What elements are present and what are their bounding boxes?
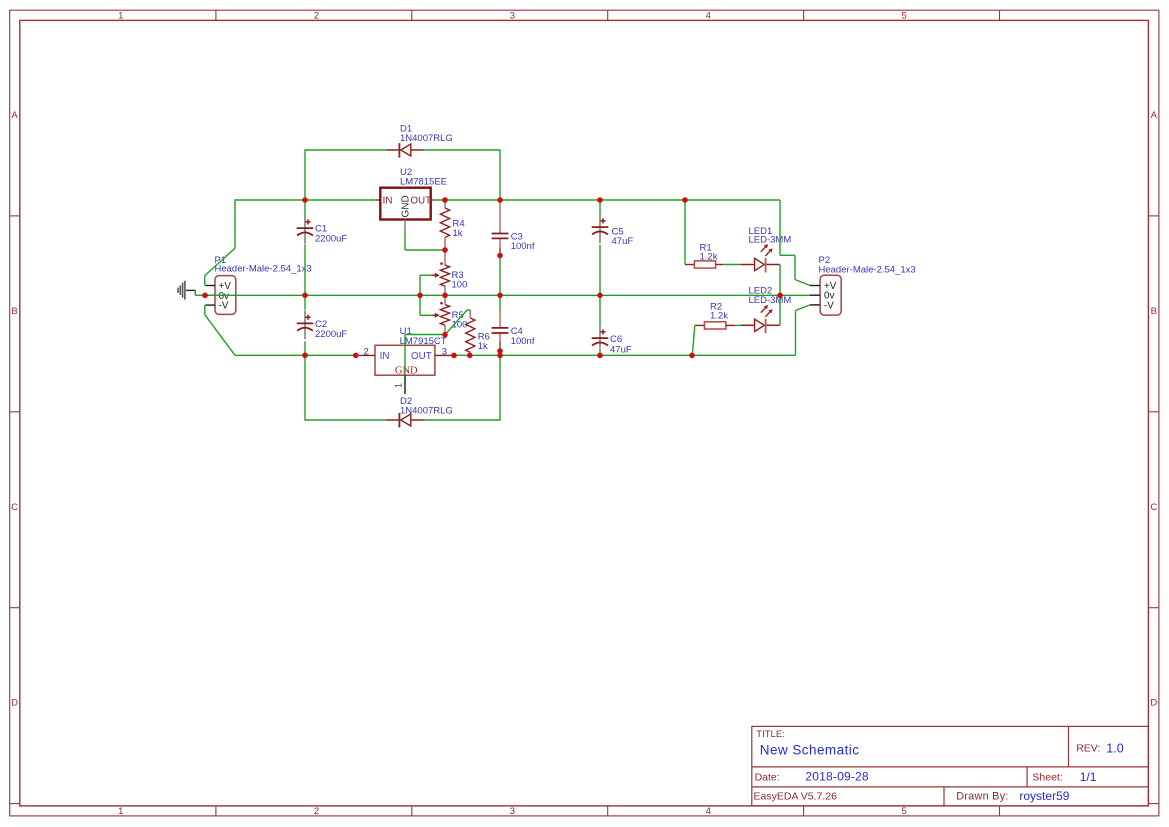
- junction node (500,295.3): [497, 293, 503, 299]
- title block: [752, 726, 1149, 806]
- svg-text:OUT: OUT: [410, 195, 431, 206]
- wire R1 branch vertical: [684, 199, 686, 264]
- capacitor C3: [492, 202, 509, 255]
- wire U2 gnd horizontal: [405, 249, 445, 251]
- svg-text:100nf: 100nf: [511, 241, 535, 252]
- junction node (685,200): [682, 197, 688, 203]
- wire C4 bottom stub: [499, 351, 501, 356]
- ground symbol: [178, 281, 195, 300]
- resistor R1: [685, 261, 723, 268]
- wire P2 +V diagonal: [795, 280, 810, 286]
- capacitor C1: [297, 215, 314, 244]
- svg-text:100: 100: [452, 279, 468, 290]
- wire R5-R6 diagonal: [445, 310, 467, 335]
- junction node (600,355.4): [597, 353, 603, 359]
- svg-text:2: 2: [364, 346, 369, 357]
- label P2: [819, 255, 916, 275]
- junction node (500,200): [497, 197, 503, 203]
- svg-text:New Schematic: New Schematic: [760, 743, 860, 758]
- wire left vertical upper: [304, 149, 306, 215]
- trimmer R3: [431, 251, 450, 294]
- junction node (469.8,355.4): [467, 353, 473, 359]
- junction node (305,200): [302, 197, 308, 203]
- wire +V corner vertical: [779, 200, 781, 255]
- LED LED2: [740, 305, 780, 333]
- svg-text:LED-3MM: LED-3MM: [749, 295, 792, 306]
- junction node (500,255.5): [497, 253, 503, 259]
- svg-text:1/1: 1/1: [1080, 770, 1097, 784]
- wire top rail left: [235, 199, 376, 201]
- svg-text:1N4007RLG: 1N4007RLG: [400, 406, 453, 417]
- svg-text:3: 3: [510, 11, 515, 22]
- header P1: [206, 276, 236, 315]
- svg-text:A: A: [1151, 110, 1158, 121]
- junction node (445,250): [442, 247, 448, 253]
- wire gnd jog horizontal: [195, 294, 205, 296]
- svg-text:1N4007RLG: 1N4007RLG: [400, 133, 453, 144]
- junction node (454,355.4): [451, 353, 457, 359]
- label U2: [400, 167, 447, 188]
- svg-text:5: 5: [902, 806, 907, 817]
- regulator U2 LM7815EE: [376, 188, 434, 230]
- wire P1 +V vertical: [234, 199, 236, 248]
- wire P2 +V vertical: [794, 255, 796, 279]
- svg-text:-V: -V: [219, 301, 229, 312]
- capacitor C4: [492, 314, 509, 351]
- capacitor C2: [297, 310, 314, 339]
- svg-text:IN: IN: [380, 351, 390, 362]
- label R6: [478, 332, 490, 353]
- junction node (445,295.3): [442, 293, 448, 299]
- wire U2 gnd vertical: [404, 230, 406, 250]
- junction node (500,351): [497, 348, 503, 354]
- wire C3-C4 vertical: [499, 256, 501, 314]
- svg-text:5: 5: [902, 11, 907, 22]
- svg-text:2: 2: [314, 806, 319, 817]
- label R1: [700, 243, 718, 263]
- svg-text:IN: IN: [383, 195, 393, 206]
- label R4: [453, 218, 465, 239]
- svg-text:47uF: 47uF: [610, 345, 632, 356]
- svg-text:LM7815EE: LM7815EE: [400, 177, 447, 188]
- label C5: [612, 226, 634, 247]
- wire gnd jog vertical: [194, 290, 196, 296]
- label D1: [400, 124, 453, 145]
- wire U1 gnd over pin: [404, 375, 406, 394]
- junction node (600,295.3): [597, 293, 603, 299]
- svg-text:2: 2: [314, 11, 319, 22]
- svg-text:1.2k: 1.2k: [710, 311, 728, 322]
- wire R3 wiper stub: [420, 274, 432, 276]
- wire P1 +V diagonal: [205, 248, 235, 275]
- svg-text:REV:: REV:: [1076, 742, 1100, 754]
- svg-text:C: C: [1150, 502, 1157, 513]
- resistor R2: [695, 322, 735, 329]
- junction node (445,200): [442, 197, 448, 203]
- svg-text:Sheet:: Sheet:: [1032, 772, 1062, 784]
- label C2: [315, 319, 347, 340]
- svg-text:B: B: [11, 306, 17, 317]
- svg-text:LED-3MM: LED-3MM: [749, 234, 792, 245]
- svg-text:C6: C6: [610, 334, 622, 345]
- svg-text:1.0: 1.0: [1106, 741, 1123, 755]
- svg-text:1: 1: [118, 806, 123, 817]
- wire R5 wiper stub: [420, 314, 433, 316]
- wire D2 right: [425, 419, 500, 421]
- junction node (420,295.3): [417, 293, 423, 299]
- svg-text:EasyEDA V5.7.26: EasyEDA V5.7.26: [754, 791, 838, 803]
- junction node (205,295.3): [202, 293, 208, 299]
- wire P2 -V diagonal: [796, 305, 811, 311]
- svg-text:2018-09-28: 2018-09-28: [805, 770, 869, 784]
- svg-text:Drawn By:: Drawn By:: [956, 791, 1009, 803]
- diode D2: [386, 413, 425, 428]
- wire bottom rail right: [454, 354, 796, 356]
- junction node (305,295.3): [302, 293, 308, 299]
- svg-text:GND: GND: [395, 365, 418, 376]
- header P2: [810, 275, 841, 315]
- label D2: [400, 396, 453, 417]
- svg-text:B: B: [1151, 306, 1157, 317]
- wire R1-LED1: [723, 264, 740, 266]
- label C3: [511, 231, 535, 252]
- wire R2-LED2: [735, 324, 741, 326]
- LED LED1: [740, 244, 780, 272]
- svg-text:1: 1: [394, 383, 404, 388]
- wire 0v rail: [208, 294, 810, 296]
- wire +V corner horizontal: [780, 254, 795, 256]
- svg-text:1k: 1k: [478, 341, 488, 352]
- junction node (445,334.7): [442, 332, 448, 338]
- wire P1 -V drop: [204, 305, 206, 315]
- label P1: [215, 255, 312, 275]
- junction node (355.7,355.4): [353, 353, 359, 359]
- wire C4-D2 vertical: [499, 355, 501, 420]
- wire R2 drop: [692, 325, 695, 355]
- wire top rail right: [434, 199, 781, 201]
- label U1: [400, 326, 447, 347]
- label LED2: [749, 285, 792, 306]
- svg-text:A: A: [11, 110, 18, 121]
- label R5: [452, 310, 468, 331]
- junction node (780,295.3): [777, 293, 783, 299]
- wire P1 +V drop: [204, 276, 206, 286]
- svg-text:3: 3: [442, 346, 447, 357]
- svg-text:C: C: [11, 502, 18, 513]
- label C6: [610, 334, 632, 356]
- svg-text:D: D: [11, 698, 18, 709]
- label LED1: [749, 226, 792, 245]
- svg-text:4: 4: [706, 11, 711, 22]
- resistor R6: [466, 310, 475, 355]
- label C4: [511, 326, 535, 347]
- label R2: [710, 301, 728, 321]
- label R3: [452, 270, 468, 291]
- junction node (305,355.3): [302, 353, 308, 359]
- capacitor C5: [592, 214, 609, 243]
- svg-text:D: D: [1150, 698, 1157, 709]
- resistor R4: [440, 201, 449, 249]
- wire D1 right: [425, 149, 500, 151]
- trimmer R5: [432, 296, 450, 334]
- capacitor C6: [592, 325, 609, 354]
- svg-text:Header-Male-2.54_1x3: Header-Male-2.54_1x3: [819, 264, 916, 275]
- svg-text:100nf: 100nf: [511, 336, 535, 347]
- wire P1 -V diagonal: [205, 315, 235, 356]
- svg-text:1k: 1k: [453, 228, 463, 239]
- wire bottom rail left: [235, 354, 356, 356]
- svg-text:47uF: 47uF: [612, 236, 634, 247]
- wire left vertical lower: [304, 341, 306, 420]
- wire D1 left: [305, 149, 386, 151]
- junction node (692,355.4): [689, 353, 695, 359]
- wire R6 top stub: [467, 309, 470, 311]
- wire LED cathode vertical: [779, 265, 781, 326]
- wire wiper vertical: [419, 275, 421, 315]
- wire C5 top stub: [599, 199, 601, 215]
- wire D1-C3 vertical: [499, 149, 501, 202]
- svg-text:OUT: OUT: [411, 351, 432, 362]
- wire U1 gnd vertical: [404, 335, 406, 376]
- wire C5-C6 vertical: [599, 245, 601, 326]
- wire U1 gnd horizontal: [405, 334, 445, 336]
- wire left vertical mid: [304, 245, 306, 310]
- svg-text:3: 3: [510, 806, 515, 817]
- svg-text:TITLE:: TITLE:: [756, 729, 785, 740]
- wire P2 -V vertical: [795, 311, 797, 356]
- svg-text:GND: GND: [401, 195, 412, 217]
- svg-text:2200uF: 2200uF: [315, 329, 347, 340]
- svg-text:4: 4: [706, 806, 711, 817]
- svg-text:1: 1: [118, 11, 123, 22]
- wire D2 left: [305, 419, 386, 421]
- svg-text:Date:: Date:: [755, 772, 780, 784]
- regulator U1 LM7915CT: [358, 345, 453, 394]
- diode D1: [386, 143, 425, 158]
- junction node (600,200): [597, 197, 603, 203]
- svg-text:royster59: royster59: [1019, 789, 1069, 803]
- junction node (500,355.4): [497, 353, 503, 359]
- svg-text:Header-Male-2.54_1x3: Header-Male-2.54_1x3: [215, 263, 312, 274]
- label C1: [315, 224, 347, 245]
- svg-text:2200uF: 2200uF: [315, 233, 347, 244]
- svg-text:-V: -V: [824, 300, 834, 311]
